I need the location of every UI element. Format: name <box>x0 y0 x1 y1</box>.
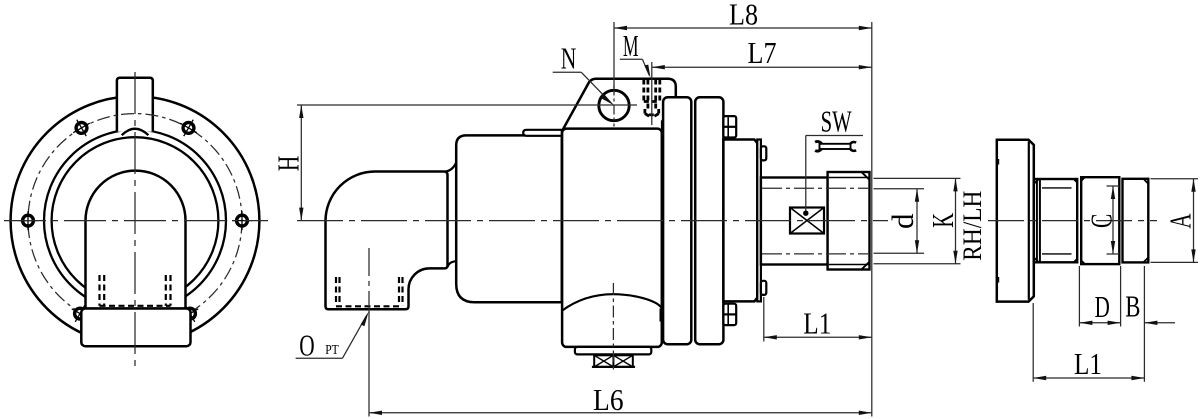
left view vertical centerline <box>134 72 136 372</box>
M leader <box>620 58 643 60</box>
flange plate 1 <box>663 97 691 344</box>
lip strip on housing top <box>523 130 562 136</box>
weld tick on block B right edge <box>659 309 662 322</box>
svg-text:RH/LH: RH/LH <box>958 190 987 260</box>
bore circle outer R91 <box>44 130 226 312</box>
svg-text:B: B <box>1125 289 1140 324</box>
wrench icon group <box>815 142 856 152</box>
svg-text:O: O <box>299 327 314 362</box>
N hole vertical centerline <box>613 86 615 127</box>
thread chamfer bottom <box>862 262 869 269</box>
L7 dimension line <box>652 66 872 68</box>
rotor collar <box>723 140 757 302</box>
M threaded hole (hidden) outer lines <box>644 80 660 118</box>
thread root line top <box>829 177 870 179</box>
elbow port vertical centerline <box>368 248 370 311</box>
O PT underline and leader <box>296 357 343 359</box>
body vertical centerline bottom <box>612 283 614 371</box>
shaft pitch dash-dot bottom <box>762 253 869 255</box>
wrench bar <box>820 144 851 149</box>
wrench right jaw <box>849 142 856 151</box>
collar end disc <box>757 140 761 302</box>
svg-text:L1: L1 <box>1074 346 1102 381</box>
common right extension line <box>871 22 873 417</box>
flange plate 2 <box>695 97 723 344</box>
N hole circle <box>599 90 629 120</box>
retaining ring bottom <box>761 281 766 295</box>
hump bracket outline <box>563 79 676 130</box>
B dimension tail with arrow <box>1144 322 1175 324</box>
end flange disc <box>997 140 1034 302</box>
flange bolt middle <box>723 208 736 233</box>
disc edge tick top <box>997 159 999 165</box>
dome (vertical pipe silhouette) <box>86 171 186 309</box>
H top extension line <box>297 104 637 106</box>
svg-text:M: M <box>623 28 639 63</box>
svg-text:D: D <box>1095 289 1110 324</box>
D dimension line <box>1079 322 1120 324</box>
thread chamfer top <box>862 173 869 180</box>
svg-text:A: A <box>1163 213 1198 229</box>
shaft section 3 <box>1123 179 1149 263</box>
d extension lines <box>874 188 925 190</box>
svg-text:C: C <box>1083 214 1118 228</box>
svg-text:PT: PT <box>325 343 339 358</box>
elbow to housing fillet top <box>445 163 456 172</box>
shaft threaded section <box>828 172 870 270</box>
L6 left extension (port axis) <box>368 311 370 417</box>
hidden thread lines in dome <box>100 275 171 306</box>
housing block A <box>456 135 562 302</box>
housing block B <box>562 129 662 347</box>
L8 left extension line <box>613 22 615 89</box>
svg-text:L7: L7 <box>748 35 777 70</box>
d dimension line <box>916 189 918 254</box>
section1 groove lines <box>1036 179 1038 262</box>
elbow to housing fillet bottom <box>448 261 457 267</box>
bolt hole at 180deg <box>19 211 38 230</box>
bolt hole at 0deg <box>233 211 252 230</box>
svg-text:N: N <box>561 41 577 76</box>
K extension lines <box>874 177 961 179</box>
H dimension line <box>300 105 302 221</box>
main horizontal centerline <box>297 220 888 222</box>
L1 left extension <box>763 297 765 342</box>
shaft smooth section <box>761 178 828 265</box>
section3 chamfers <box>1143 179 1148 184</box>
bolt hole at 240deg (partly hidden) <box>67 301 93 327</box>
bearing X <box>790 208 824 234</box>
C dimension line <box>1112 186 1114 254</box>
plug square sockets with X <box>592 355 635 367</box>
M hole drill cup <box>644 109 647 114</box>
A extension lines <box>1151 178 1199 180</box>
N leader <box>553 71 582 73</box>
flange bolt top <box>723 116 736 137</box>
bolt hole at 300deg (partly hidden) <box>177 301 203 327</box>
elbow body <box>326 172 448 310</box>
drain plug strip <box>575 347 651 355</box>
dark bar between block B and plate <box>661 120 664 133</box>
bolt circle (dash-dot) <box>28 114 242 328</box>
flange bolt bottom <box>723 304 736 325</box>
shaft pitch dash-dot top <box>762 187 869 189</box>
left view horizontal centerline <box>4 220 268 222</box>
svg-text:L6: L6 <box>593 382 624 417</box>
B extension line <box>1143 266 1145 382</box>
svg-text:L8: L8 <box>729 0 758 32</box>
retaining ring top <box>761 146 766 160</box>
svg-text:K: K <box>925 212 960 227</box>
shaft section 1 <box>1034 179 1077 262</box>
section2 chamfers <box>1081 177 1085 180</box>
bearing box <box>790 208 824 234</box>
svg-text:SW: SW <box>821 104 852 139</box>
svg-text:L1: L1 <box>803 306 831 341</box>
section1 thread root lines <box>1042 187 1072 189</box>
M hole root lines <box>647 80 650 109</box>
section1 chamfers <box>1034 179 1039 184</box>
shaft section 2 <box>1081 177 1119 264</box>
hidden thread lines in elbow socket <box>336 277 403 306</box>
L8 dimension line <box>614 27 872 29</box>
hump bracket (fill) <box>563 79 676 130</box>
L1 right dimension line <box>1033 377 1144 379</box>
flange outer circle <box>11 96 260 345</box>
bolt hole at 60deg <box>176 115 202 141</box>
disc edge tick bottom <box>997 277 999 283</box>
small bump arc under tab <box>122 129 149 135</box>
svg-text:H: H <box>271 156 306 172</box>
D extension lines <box>1078 266 1080 327</box>
top tab (lug) <box>117 78 153 132</box>
thread root line bottom <box>829 264 870 266</box>
svg-text:d: d <box>885 213 920 229</box>
K dimension line <box>955 178 957 263</box>
A dimension line <box>1193 179 1195 263</box>
saddle curve on block B bottom <box>562 294 662 310</box>
L1 dimension line <box>764 336 872 338</box>
M hole axis <box>651 62 653 125</box>
right view centerline <box>988 220 1157 222</box>
wrench left jaw <box>815 142 822 152</box>
disc face chamfer line <box>1028 142 1030 300</box>
SW underline and leader <box>806 135 863 137</box>
bolt hole at 120deg <box>69 115 95 141</box>
L6 dimension line <box>369 412 872 414</box>
L1 right extension line <box>1032 303 1034 382</box>
bore circle inner R84.5 <box>52 137 219 304</box>
bottom socket block <box>81 309 190 347</box>
